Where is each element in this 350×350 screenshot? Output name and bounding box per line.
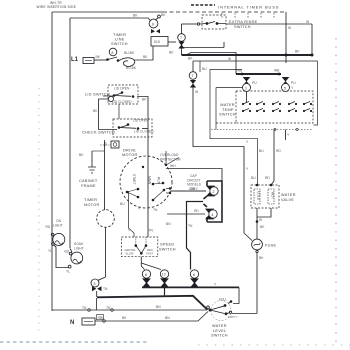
motor inner dots — [126, 164, 168, 202]
svg-text:LIGHT: LIGHT — [74, 247, 84, 251]
svg-text:MAIN: MAIN — [148, 176, 152, 185]
svg-text:FAST: FAST — [147, 252, 154, 256]
motor terminal wire to bracket — [166, 169, 222, 182]
circle 7 upper — [178, 34, 186, 42]
svg-text:FUSE: FUSE — [265, 244, 276, 248]
svg-text:N: N — [70, 320, 74, 326]
terminal above circle 9 — [158, 15, 161, 18]
svg-text:4: 4 — [211, 213, 213, 217]
svg-text:3: 3 — [93, 282, 95, 286]
svg-text:LID CLOSED: LID CLOSED — [112, 100, 132, 104]
hourglass + circle 2 — [206, 186, 215, 197]
left faint dotted column — [38, 88, 40, 335]
circle 3 — [91, 279, 99, 287]
svg-text:PU: PU — [252, 81, 257, 85]
svg-text:RD: RD — [265, 176, 270, 180]
wire lid switch to check switch — [118, 104, 120, 119]
L1 — [71, 57, 79, 63]
wire to switch — [94, 59, 107, 61]
svg-text:COLD: COLD — [257, 191, 261, 201]
svg-text:START: START — [132, 174, 136, 185]
svg-text:2: 2 — [212, 190, 214, 194]
svg-text:LID CLOSED: LID CLOSED — [134, 130, 154, 134]
svg-text:12: 12 — [162, 273, 166, 277]
wire W/Y from circle 7 to fuse branch — [193, 88, 244, 228]
water temp dashed box — [236, 91, 313, 123]
overload protector label — [160, 153, 181, 162]
fine dashed bottom wire — [211, 129, 313, 131]
wire circle7 up to extra rinse line — [181, 24, 183, 34]
svg-text:8: 8 — [145, 273, 147, 277]
lid switch contacts — [113, 91, 135, 98]
circle 7 lower — [192, 61, 194, 72]
water valve dashed box — [251, 185, 279, 208]
lid switch dashed box — [108, 85, 138, 104]
svg-text:TIMER: TIMER — [113, 33, 126, 37]
svg-text:PU: PU — [291, 81, 296, 85]
svg-text:SWITCH: SWITCH — [234, 25, 251, 29]
svg-text:LINE: LINE — [115, 38, 125, 42]
stem to circle 12 — [141, 263, 161, 270]
wire node to bottom frame — [96, 298, 98, 310]
check switch dashed box — [113, 119, 152, 137]
hourglass + circle 1 — [243, 77, 251, 86]
L1 plug box — [83, 58, 94, 64]
internal timer buss dashed line — [163, 11, 286, 13]
stems to circles — [141, 257, 144, 270]
water temp switch outer box — [210, 70, 258, 186]
svg-text:TN: TN — [188, 224, 193, 228]
wires into circle2 — [169, 187, 171, 194]
svg-text:FRAME: FRAME — [81, 184, 96, 188]
cap circuit note — [187, 174, 202, 191]
thick line y287 — [142, 286, 239, 288]
connector label A1 — [97, 315, 104, 320]
extra rinse label — [229, 20, 258, 29]
vertical to circle 6 — [187, 202, 204, 270]
svg-text:WB: WB — [274, 69, 280, 73]
svg-text:FULL: FULL — [219, 298, 227, 302]
svg-text:MOTOR: MOTOR — [84, 203, 100, 207]
svg-text:BN: BN — [165, 316, 170, 320]
svg-text:LID OPEN: LID OPEN — [114, 87, 130, 91]
outer frame left — [51, 12, 53, 311]
wire to thick bus — [181, 49, 183, 56]
svg-text:BU-BK: BU-BK — [126, 66, 137, 70]
svg-text:SWITCH: SWITCH — [211, 334, 228, 338]
svg-text:CABINET: CABINET — [79, 179, 98, 183]
thick line y74 — [236, 73, 281, 75]
lid switch terminal ring — [108, 96, 113, 101]
overload protector wire — [166, 151, 179, 165]
svg-text:OVERLOAD: OVERLOAD — [160, 153, 179, 157]
valve coils — [254, 189, 260, 204]
svg-text:MOTOR: MOTOR — [122, 153, 138, 157]
svg-text:HOT: HOT — [271, 192, 275, 199]
svg-text:VALVE: VALVE — [281, 198, 294, 202]
svg-text:WATER: WATER — [212, 324, 227, 328]
wire BK switch to timer block — [134, 47, 153, 61]
hourglass below — [190, 80, 196, 88]
hourglasses below circles — [142, 278, 199, 287]
wire circle 3 to thick line — [95, 287, 97, 298]
wire to timer motor — [104, 152, 106, 210]
svg-text:L1: L1 — [71, 57, 79, 63]
contact blades row 1 — [243, 102, 310, 105]
check switch blades — [120, 125, 136, 128]
svg-text:RD: RD — [46, 225, 51, 229]
svg-text:5: 5 — [284, 86, 286, 90]
wire circle 1 into contacts — [246, 92, 248, 104]
timer motor — [84, 198, 100, 207]
svg-text:LEVEL: LEVEL — [213, 329, 226, 333]
outer frame bottom — [52, 309, 208, 312]
svg-text:REG: REG — [147, 248, 153, 252]
svg-text:INTERNAL TIMER BUSS: INTERNAL TIMER BUSS — [218, 5, 279, 10]
wire y52 diag — [186, 53, 236, 75]
svg-text:1: 1 — [245, 86, 247, 90]
svg-text:TN: TN — [103, 287, 108, 291]
svg-text:YL: YL — [66, 270, 70, 274]
svg-text:TN: TN — [106, 306, 111, 310]
svg-text:7: 7 — [180, 36, 182, 40]
lid switch blades — [103, 93, 131, 96]
svg-text:CHECK SWITCH: CHECK SWITCH — [82, 131, 115, 135]
svg-text:BU: BU — [120, 202, 125, 206]
timer line switch contact — [106, 58, 119, 62]
lid-check link — [99, 99, 117, 130]
svg-text:SWITCH: SWITCH — [219, 113, 236, 117]
svg-text:BU-BK: BU-BK — [124, 51, 135, 55]
svg-text:EMPTY: EMPTY — [228, 315, 238, 319]
wire on light to soak light — [54, 245, 69, 268]
svg-text:6: 6 — [193, 273, 195, 277]
svg-text:RD: RD — [276, 149, 281, 153]
svg-text:WH-TR: WH-TR — [50, 1, 62, 5]
svg-text:SLOW: SLOW — [126, 252, 134, 256]
svg-text:TIMER: TIMER — [84, 198, 97, 202]
svg-text:515: 515 — [154, 40, 160, 44]
wire valve to fuse — [256, 217, 258, 239]
svg-text:RD: RD — [194, 209, 199, 213]
bottom dashed page border — [0, 342, 350, 345]
svg-text:9: 9 — [152, 22, 154, 26]
ground — [88, 151, 96, 173]
wire W right drop — [285, 12, 287, 63]
wires to fuse — [244, 227, 252, 241]
temp switch contacts — [242, 103, 312, 112]
buss drop stubs — [222, 13, 274, 18]
buss title text — [218, 5, 279, 10]
svg-text:WB: WB — [237, 69, 243, 73]
svg-text:BN: BN — [166, 222, 171, 226]
right dotted page border — [335, 38, 337, 348]
timer block box — [151, 37, 168, 47]
wire to circle 1 — [216, 88, 243, 130]
bracket — [207, 181, 222, 222]
buss title dashes — [191, 4, 215, 6]
thick line y298 — [97, 296, 207, 310]
svg-text:TN: TN — [153, 208, 158, 212]
contact blades row 2 — [243, 109, 310, 112]
svg-text:TEMP: TEMP — [222, 108, 234, 112]
bowtie below 3 — [92, 286, 102, 291]
speed switch blades — [136, 246, 146, 254]
extra rinse wire to right drop — [226, 23, 312, 25]
svg-text:BU: BU — [259, 149, 264, 153]
svg-text:SOAK: SOAK — [74, 242, 84, 246]
svg-text:BU: BU — [251, 176, 256, 180]
circle 9 — [149, 19, 158, 28]
wires into circle4 — [167, 213, 205, 215]
drive motor — [122, 148, 138, 157]
svg-text:SWITCH: SWITCH — [159, 247, 176, 251]
valve bottom wires — [257, 208, 271, 217]
svg-text:TN: TN — [99, 316, 104, 320]
cabinet frame label — [79, 179, 98, 188]
extra rinse contacts — [197, 23, 199, 25]
svg-text:WATER: WATER — [220, 103, 235, 107]
svg-text:RUN: RUN — [157, 177, 161, 185]
timer line switch title — [111, 33, 128, 46]
speed switch dashed box — [122, 237, 158, 257]
svg-text:DRIVE: DRIVE — [123, 148, 136, 152]
svg-text:WH: WH — [170, 164, 176, 168]
svg-text:GENTLE: GENTLE — [125, 248, 136, 252]
svg-text:ON: ON — [56, 219, 62, 223]
svg-text:SPEED: SPEED — [160, 243, 174, 247]
svg-text:BU: BU — [202, 67, 207, 71]
N neutral — [70, 320, 74, 326]
wire y47 — [183, 42, 224, 48]
temp switch drops — [271, 130, 274, 186]
extra rinse feed wire — [182, 23, 198, 25]
svg-text:PROTECTOR: PROTECTOR — [160, 158, 181, 162]
svg-text:WATER: WATER — [281, 193, 296, 197]
speed switch entry stubs — [136, 237, 146, 246]
svg-text:TN: TN — [149, 229, 154, 233]
SOAK light — [65, 242, 84, 254]
node dots on bottom line — [88, 309, 113, 311]
hourglass + circle 5 — [282, 77, 290, 86]
connector pair below 9 — [151, 29, 160, 33]
fuse — [252, 239, 263, 250]
circle 8 — [109, 48, 117, 56]
wire BK lid switch through motor to speed switch — [137, 97, 148, 238]
wire timer motor to circle 3 — [105, 227, 107, 277]
W wire across temp switch top — [193, 60, 318, 62]
wire timer block to connector 7 — [168, 41, 176, 43]
stub connector 12 to line — [164, 288, 166, 296]
svg-text:BU: BU — [65, 250, 70, 254]
svg-text:BN: BN — [156, 305, 161, 309]
extra rinse switch dashed box — [202, 15, 226, 29]
svg-text:WIRE INSERTION SIDE: WIRE INSERTION SIDE — [37, 5, 77, 9]
svg-text:TN: TN — [82, 306, 87, 310]
svg-text:LIGHT: LIGHT — [53, 224, 63, 228]
svg-text:YL: YL — [48, 249, 52, 253]
wire BK fuse to water level switch — [256, 253, 258, 314]
inner frame top — [70, 18, 151, 21]
svg-text:SWITCH: SWITCH — [111, 42, 128, 46]
stub BU on W wire — [199, 61, 201, 72]
thick buss line y55 — [182, 54, 313, 56]
capacitor box — [111, 141, 119, 148]
wire check switch to ground node — [104, 140, 106, 152]
svg-text:EXTRA RINSE: EXTRA RINSE — [229, 20, 258, 24]
speed switch feeds from motor — [129, 191, 135, 237]
svg-text:OR: OR — [190, 187, 196, 191]
svg-text:7: 7 — [191, 74, 193, 78]
ON light — [46, 219, 63, 229]
motor winding links — [127, 183, 164, 200]
svg-text:LID OPEN: LID OPEN — [133, 119, 149, 123]
water level switch body — [211, 301, 231, 321]
circle row — [142, 270, 150, 278]
hourglass connector below 7 — [178, 42, 184, 49]
inner frame left — [69, 18, 71, 248]
corner note text — [37, 1, 77, 9]
water temp title — [219, 103, 236, 117]
svg-text:8: 8 — [111, 51, 113, 55]
wire check switch output — [142, 128, 148, 130]
outer frame top — [52, 11, 163, 13]
